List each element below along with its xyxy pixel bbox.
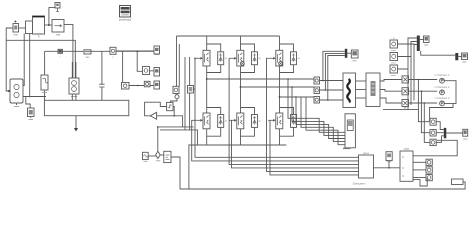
- label battery: [71, 96, 77, 98]
- wire U11 out3: [413, 177, 426, 179]
- wire to mux M2: [421, 51, 456, 55]
- phase rail C: [280, 96, 315, 98]
- wire load out b: [380, 90, 402, 92]
- wire feedback long: [180, 182, 465, 189]
- junction node J1: [136, 50, 138, 52]
- gate wire g4: [192, 120, 359, 161]
- gain block CB3: [430, 139, 436, 145]
- phase rail B: [241, 86, 315, 88]
- node J5: [137, 85, 139, 87]
- ground: [74, 116, 78, 132]
- display D1: [426, 159, 432, 165]
- svg-text:U Interface 2: U Interface 2: [435, 85, 450, 89]
- IGBT Q5: [237, 113, 244, 129]
- scope Scope2: [343, 114, 355, 149]
- wire switch to U7: [160, 154, 164, 156]
- wire scope tap C: [328, 56, 345, 101]
- battery block B1: [69, 62, 79, 100]
- diode D1: [218, 52, 224, 65]
- relay U4: [167, 102, 173, 110]
- node control J2: [194, 58, 196, 60]
- node J4: [173, 115, 175, 117]
- wire mux M0 out: [347, 52, 351, 54]
- IGBT Q4: [203, 113, 210, 129]
- wire fan 2: [292, 87, 345, 135]
- wire Q6 collector: [280, 97, 294, 115]
- wire mux M1 out: [420, 39, 424, 41]
- wire U11 out2: [413, 169, 426, 171]
- node fan B: [291, 86, 293, 88]
- wire meas bus 3: [413, 45, 415, 101]
- label ScopeT2: [462, 61, 466, 63]
- terminator block TB1: [452, 179, 464, 185]
- scope block SC1: [26, 97, 34, 118]
- wire CB2 to mux: [436, 132, 444, 134]
- DC- rail: [189, 145, 286, 189]
- PWM generator U2: [173, 86, 179, 93]
- outport circle RC2: [435, 85, 450, 95]
- diode D2: [252, 52, 258, 65]
- gate arrow Q6: [268, 119, 275, 121]
- wire S1 top feed: [44, 51, 46, 75]
- stem RB3: [404, 107, 406, 109]
- AC source block T1: [10, 79, 23, 107]
- asynchronous machine U8: [343, 73, 356, 108]
- label switch: [156, 160, 161, 162]
- wire T1 left input: [6, 40, 10, 91]
- voltage measurement Vm1: [55, 3, 60, 12]
- scope ScopeT2: [462, 53, 468, 60]
- wire scope tap A: [323, 51, 345, 80]
- mux M1: [417, 36, 420, 52]
- wire fan 3: [296, 97, 345, 139]
- goto tag Vb: [154, 68, 160, 77]
- label A1: [14, 34, 19, 36]
- block U7: [164, 151, 171, 162]
- gate arrow Q4: [195, 119, 202, 121]
- wire fan 1: [288, 79, 345, 132]
- wire JR2 down: [421, 91, 430, 133]
- wire IA to machine: [320, 80, 344, 82]
- wire control h1: [158, 126, 194, 128]
- control vertical feed: [178, 44, 180, 86]
- display D2: [426, 167, 432, 173]
- wire T1 bottom link: [23, 96, 46, 98]
- square block U5: [188, 86, 196, 94]
- gate wire g2: [229, 58, 358, 164]
- label Q5: [259, 120, 261, 122]
- gain triangle G1: [150, 112, 156, 119]
- wire U2 to U3: [175, 94, 177, 95]
- icon block GB1: [143, 67, 155, 75]
- goto tag Va: [116, 46, 160, 55]
- mux M2: [455, 53, 458, 60]
- label ScopeT1: [424, 44, 428, 46]
- wire J1 down: [137, 51, 142, 71]
- wire U11 bottom loop: [413, 178, 427, 186]
- wire Q1 collector: [207, 36, 221, 52]
- wire meas bus 1: [407, 69, 409, 110]
- wire F3 out: [398, 38, 417, 69]
- scope Scope1: [351, 50, 358, 58]
- wire bus link: [43, 97, 45, 101]
- wire mux M3 out: [446, 132, 463, 134]
- wire Q2 emitter: [241, 65, 255, 87]
- measurement block M2: [110, 47, 116, 59]
- gate collector block U10: [353, 152, 374, 186]
- IGBT Q3: [276, 50, 283, 66]
- label Q6: [298, 120, 300, 122]
- wire A4 output to DC bus: [64, 24, 73, 78]
- wire SB1 down: [388, 161, 390, 168]
- wire CB3 to mux: [436, 136, 444, 143]
- measurement block RB1: [402, 76, 409, 83]
- wire Q4 emitter: [207, 127, 221, 145]
- svg-text:U Interface 1: U Interface 1: [435, 73, 450, 77]
- node T1 in: [8, 90, 10, 92]
- wire F2 out: [398, 42, 417, 57]
- sum circle U3: [175, 95, 179, 99]
- source block A1: [13, 20, 19, 32]
- node phase C: [279, 96, 281, 98]
- manual switch S1: [156, 151, 161, 158]
- gain block GB2: [144, 81, 150, 87]
- label Q1: [225, 57, 227, 59]
- svg-text:gates: gates: [363, 152, 370, 155]
- label Q4: [225, 120, 227, 122]
- svg-text:Subsystem: Subsystem: [353, 181, 366, 185]
- powergui block: [119, 6, 132, 22]
- mux M0: [345, 49, 348, 58]
- svg-text:w: w: [393, 37, 395, 40]
- wire JR3 down: [424, 103, 430, 142]
- wire fan 4: [301, 97, 345, 142]
- voltage measurement Vdc: [122, 51, 130, 89]
- gate wire g5: [232, 120, 359, 168]
- DC bus rectangle: [44, 100, 128, 115]
- svg-text:Tr: Tr: [37, 35, 39, 39]
- from tag F3: [390, 65, 398, 73]
- wire Q5 emitter: [241, 127, 255, 145]
- wire scope tap B: [325, 53, 344, 90]
- wire machine to load b: [356, 89, 367, 91]
- scope Scope3: [463, 129, 468, 136]
- diode D5: [252, 115, 258, 128]
- wire outport link: [444, 81, 456, 104]
- current measurement M1: [58, 49, 63, 58]
- node J3: [157, 126, 159, 128]
- gate arrow Q5: [229, 119, 236, 121]
- gate arrow Q2: [229, 57, 236, 59]
- node JS: [388, 167, 390, 169]
- wire A2 to A4: [45, 24, 53, 26]
- scope ScopeT1: [424, 36, 430, 43]
- wire JR1 down: [418, 80, 430, 122]
- three-phase block U9: [366, 73, 380, 107]
- IGBT Q6: [276, 113, 283, 129]
- label S1: [42, 92, 47, 94]
- wire rail to PWM column: [176, 36, 178, 86]
- wire Q1 emitter: [207, 65, 221, 79]
- label Scope1: [353, 60, 357, 62]
- svg-text:VFD: VFD: [404, 147, 409, 151]
- DC+ rail: [177, 35, 280, 37]
- inductor L1: [84, 50, 91, 59]
- block A3 white: [26, 21, 33, 34]
- label SC1: [29, 119, 34, 121]
- gate bundle vertical 2: [189, 57, 191, 130]
- wire row3 loop: [430, 103, 453, 121]
- wire Q5 collector: [241, 87, 255, 115]
- node JR2: [421, 90, 423, 92]
- wire RB2 to outport: [409, 90, 438, 92]
- wire Vm1 tap: [49, 8, 55, 25]
- IGBT Q2: [237, 50, 244, 66]
- wire load out a: [380, 80, 402, 82]
- wire U7 out: [171, 157, 180, 189]
- label Scope3: [463, 138, 467, 140]
- wire compare right: [174, 116, 182, 127]
- node fan A: [287, 78, 289, 80]
- svg-text:powergui: powergui: [119, 18, 132, 22]
- node JC: [327, 99, 329, 101]
- node fan C: [295, 96, 297, 98]
- wire relay out: [157, 107, 175, 116]
- wire control return: [160, 130, 198, 145]
- label F2 tag: [391, 62, 396, 64]
- mux M3: [444, 128, 447, 138]
- diode D4: [218, 115, 224, 128]
- label Q2: [259, 57, 261, 59]
- wire machine to load c: [356, 97, 367, 99]
- label Q3: [298, 57, 300, 59]
- wire machine m bus: [383, 109, 418, 111]
- wire sine to switch: [148, 155, 156, 157]
- capacitor C1: [99, 51, 104, 100]
- current measurement IB: [314, 87, 320, 94]
- wire F1 out: [398, 43, 417, 46]
- wire gain out loop: [145, 102, 167, 116]
- label F1 tag: [391, 50, 396, 52]
- wire CB1 to mux: [436, 122, 444, 130]
- node JA: [322, 80, 324, 82]
- measurement block RB2: [402, 88, 409, 95]
- wire IB to machine: [320, 89, 344, 91]
- wire Vdc out: [129, 85, 154, 87]
- current sensor tap leg2: [240, 62, 244, 66]
- gate bundle vertical 1: [184, 57, 186, 130]
- node phase B: [240, 86, 242, 88]
- gain block CB2: [430, 130, 436, 137]
- from tag F1: [390, 37, 398, 48]
- measurement block RB3: [402, 100, 409, 107]
- wire load out c: [380, 98, 402, 103]
- wire RB1 to outport: [409, 79, 438, 81]
- wire meas bus 2: [410, 57, 412, 106]
- wire fan 5: [306, 97, 345, 145]
- node JB: [325, 89, 327, 91]
- wire A3 down to T1 right port: [23, 34, 24, 86]
- sine source U6: [143, 152, 149, 161]
- wire IC to machine: [320, 99, 344, 101]
- node JR3: [424, 102, 426, 104]
- wire A1 left loop: [6, 28, 75, 78]
- phase rail A: [207, 78, 314, 80]
- constant block SB1: [386, 152, 392, 162]
- wire Q2 collector: [241, 36, 255, 52]
- gate arrow Q3: [268, 57, 275, 59]
- measurement block A4: [52, 20, 64, 37]
- wire Q6 emitter: [280, 127, 294, 145]
- current measurement IC: [314, 97, 320, 104]
- current sensor tap leg3: [279, 62, 283, 66]
- gate wire g6: [270, 120, 359, 175]
- wire switch feed: [157, 127, 159, 152]
- wire Q4 collector: [207, 79, 221, 115]
- subsystem VFD U11: [400, 147, 413, 182]
- wire A2 down to T1 lower port: [29, 34, 31, 97]
- wire U11 out1: [413, 161, 426, 163]
- wire U10 out: [374, 167, 401, 169]
- wire U3 to relay: [171, 99, 178, 103]
- nonlinear block S1: [41, 75, 48, 97]
- wire Q3 collector: [280, 36, 294, 52]
- IGBT Q1: [203, 50, 210, 66]
- wire RB3 to outport: [409, 102, 438, 104]
- outport circle RC1: [435, 73, 450, 83]
- current measurement IA: [314, 77, 320, 84]
- wire A1 to A3: [19, 27, 26, 29]
- label F3 tag: [391, 75, 396, 77]
- outport circle RC3: [435, 96, 450, 106]
- diode D3: [291, 52, 297, 65]
- wire machine to load a: [356, 80, 367, 82]
- node T1 lower: [29, 96, 31, 98]
- transformer block A2: [33, 16, 45, 39]
- diode D6: [291, 115, 297, 128]
- gate arrow Q1: [195, 57, 202, 59]
- node Vm1 tap: [48, 24, 50, 26]
- svg-text:U Interface 3: U Interface 3: [435, 96, 450, 100]
- wire cluster tap: [413, 140, 457, 156]
- gate wire g1: [195, 58, 359, 157]
- display D3: [426, 175, 432, 181]
- node JR1: [418, 79, 420, 81]
- wire mux M2 out: [458, 56, 461, 58]
- svg-text:Vab: Vab: [56, 33, 61, 37]
- gain block CB1: [430, 118, 436, 125]
- goto tag Vc: [154, 81, 160, 89]
- gate wire g3: [267, 58, 359, 171]
- wire Q3 emitter: [280, 65, 294, 97]
- from tag F2: [390, 53, 398, 61]
- node phase A: [206, 78, 208, 80]
- main DC wire: [45, 50, 154, 52]
